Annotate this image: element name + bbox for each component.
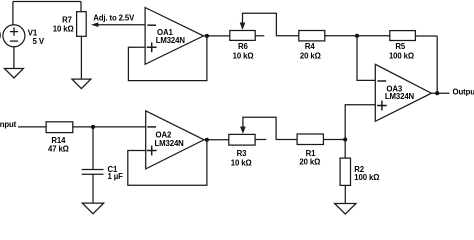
svg-text:1 µF: 1 µF — [108, 172, 124, 181]
svg-text:Input: Input — [0, 120, 17, 129]
svg-text:47 kΩ: 47 kΩ — [48, 144, 69, 153]
svg-text:20 kΩ: 20 kΩ — [299, 158, 320, 167]
svg-text:Output: Output — [453, 88, 474, 97]
svg-text:5 V: 5 V — [33, 37, 45, 46]
svg-text:10 kΩ: 10 kΩ — [233, 51, 254, 60]
svg-text:R5: R5 — [395, 42, 406, 51]
svg-text:100 kΩ: 100 kΩ — [354, 173, 379, 182]
svg-text:LM324N: LM324N — [156, 36, 186, 45]
svg-text:20 kΩ: 20 kΩ — [300, 51, 321, 60]
svg-text:LM324N: LM324N — [155, 139, 185, 148]
svg-text:10 kΩ: 10 kΩ — [53, 24, 74, 33]
svg-text:10 kΩ: 10 kΩ — [231, 159, 252, 168]
svg-text:R6: R6 — [238, 42, 249, 51]
svg-text:R3: R3 — [237, 149, 248, 158]
svg-text:Adj. to 2.5V: Adj. to 2.5V — [93, 14, 135, 23]
svg-text:LM324N: LM324N — [385, 92, 415, 101]
svg-text:R7: R7 — [62, 16, 72, 25]
svg-text:OA2: OA2 — [156, 130, 172, 139]
svg-text:100 kΩ: 100 kΩ — [389, 51, 414, 60]
svg-text:R4: R4 — [305, 42, 316, 51]
